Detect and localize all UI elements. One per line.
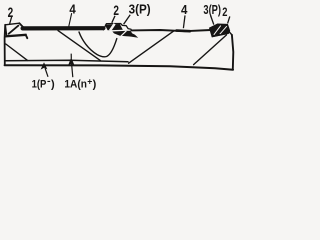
hatch line (corner left) <box>6 44 28 60</box>
paper background <box>0 0 240 107</box>
svg-text:2: 2 <box>8 5 14 20</box>
mesa bump outline <box>103 24 131 31</box>
svg-text:1(P: 1(P <box>32 79 47 91</box>
substrate bottom line B (lower) <box>5 65 233 70</box>
leader: label 2 right <box>228 16 230 23</box>
layer 4 thick bar (left) <box>23 26 104 30</box>
surface line right of bump <box>131 30 210 31</box>
leader: label 3(P) right <box>211 16 214 25</box>
svg-text:2: 2 <box>222 5 227 19</box>
svg-text:): ) <box>93 79 97 91</box>
leader: label 4 right <box>183 15 185 28</box>
leader: label 2 middle <box>112 16 115 23</box>
substrate top-left surface line <box>5 35 27 38</box>
label 4 left leader <box>69 14 72 27</box>
leader: label 3(P) middle <box>124 15 131 24</box>
svg-text:+: + <box>87 77 92 87</box>
right mesa bevel <box>229 31 232 35</box>
region 3(P) band under bump (dark) <box>112 31 138 38</box>
electrode 2 (right, dark parallelogram) <box>209 24 232 37</box>
electrode 2 on bump (dark fill) <box>105 24 123 31</box>
hatch line (right forward slash) <box>194 35 227 65</box>
svg-text:): ) <box>51 79 55 91</box>
region 1A bowl boundary <box>79 32 117 57</box>
svg-text:4: 4 <box>181 2 188 17</box>
svg-text:2: 2 <box>113 3 119 18</box>
substrate right edge <box>232 35 233 70</box>
hatch line (long backslash) <box>58 31 100 61</box>
arrow 1(P-) <box>41 62 48 77</box>
svg-text:1A(n: 1A(n <box>64 79 87 91</box>
hatch line (mid forward slash) <box>129 31 174 63</box>
electrode 2 (left) outline <box>5 23 19 25</box>
svg-text:4: 4 <box>69 2 76 17</box>
substrate left edge <box>4 25 7 65</box>
svg-text:3(P): 3(P) <box>203 2 221 17</box>
substrate bottom line A (upper) <box>5 60 128 62</box>
svg-text:3(P): 3(P) <box>129 2 151 17</box>
arrow 1A(n+) <box>68 54 75 78</box>
leader: label 2 left <box>10 17 12 24</box>
electrode 2 (left) hatch <box>9 26 19 34</box>
